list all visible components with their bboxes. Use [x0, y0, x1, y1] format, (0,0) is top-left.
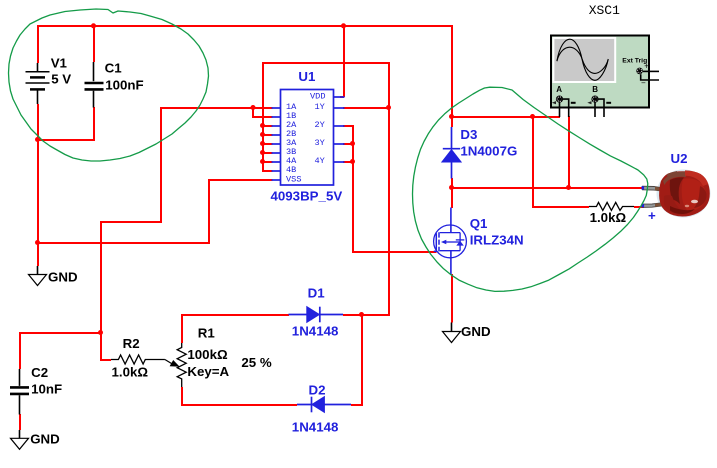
label C1 value — [105, 61, 144, 93]
wire 3A stub — [262, 143, 273, 145]
green annotation loop around D3/Q1 — [413, 87, 648, 291]
diode D3 — [442, 127, 461, 179]
MOSFET Q1 — [434, 208, 467, 275]
wire C2 top drop — [19, 332, 21, 369]
diode D2 — [297, 397, 351, 413]
scope lead A plus — [559, 103, 561, 118]
svg-text:1N4007G: 1N4007G — [460, 144, 517, 159]
wire scope A minus drop — [568, 116, 570, 188]
wire D3 branch vertical — [451, 25, 453, 127]
svg-text:D2: D2 — [309, 383, 326, 398]
wire staircase vertical upper — [160, 107, 162, 222]
wire LED cathode rail — [451, 187, 643, 189]
capacitor C2 — [10, 369, 29, 415]
svg-text:VSS: VSS — [286, 175, 301, 185]
wire 2B stub — [262, 134, 273, 136]
wire 3Y stub — [343, 143, 354, 145]
wire VSS rail horizontal — [37, 242, 210, 244]
svg-text:4B: 4B — [286, 165, 296, 175]
wire R1 riser — [181, 314, 183, 343]
svg-text:Key=A: Key=A — [187, 364, 229, 379]
svg-text:+: + — [648, 208, 656, 223]
svg-text:U1: U1 — [298, 69, 316, 84]
IC U1 left pin stubs — [272, 108, 281, 180]
svg-text:1Y: 1Y — [315, 102, 325, 112]
svg-text:GND: GND — [461, 324, 491, 339]
wire D1 to feedback corner — [343, 314, 390, 316]
svg-text:R1: R1 — [198, 326, 216, 341]
wire gate rail horizontal — [352, 251, 437, 253]
capacitor C1 — [85, 62, 104, 108]
wire resistor to LED anode — [634, 206, 644, 208]
label U1 part number — [271, 189, 343, 204]
ground GND1 under V1 — [29, 266, 47, 286]
label R1 percent — [241, 355, 271, 370]
wire C1 top drop — [93, 25, 95, 62]
wire V1 C1 bottom link — [37, 139, 95, 141]
label D1 — [292, 285, 339, 338]
svg-text:A: A — [556, 85, 562, 94]
wire resistor feed — [532, 206, 589, 208]
wire 3B stub — [262, 152, 273, 154]
scope ext trig leads — [641, 71, 659, 80]
label U2 — [671, 151, 688, 166]
wire D2 right stub — [351, 404, 363, 406]
ground GND2 under C2 — [11, 430, 29, 449]
svg-text:Q1: Q1 — [470, 216, 488, 231]
wire VSS riser — [208, 179, 210, 244]
ground GND3 under Q1 — [443, 323, 461, 343]
label XSC1 — [589, 3, 620, 18]
label R3 value — [590, 210, 627, 225]
svg-text:100kΩ: 100kΩ — [187, 347, 228, 362]
IC U1 pin labels — [286, 92, 325, 185]
wire node A to C2 — [19, 332, 102, 334]
LED U2 photo — [642, 170, 711, 218]
svg-text:B: B — [592, 85, 598, 94]
IC U1 body — [281, 90, 334, 186]
svg-text:5 V: 5 V — [51, 71, 71, 86]
wire R1 to D1 — [181, 314, 289, 316]
svg-text:1.0kΩ: 1.0kΩ — [590, 210, 627, 225]
IC U1 right pin stubs — [334, 97, 345, 162]
label R1 value — [187, 326, 229, 379]
potentiometer R1 — [165, 343, 186, 387]
label U1 — [298, 69, 316, 84]
wire top rail — [37, 25, 452, 27]
svg-text:2Y: 2Y — [315, 120, 325, 130]
svg-text:4Y: 4Y — [315, 156, 325, 166]
wire input bus vertical — [262, 62, 264, 171]
wire branch down to resistor — [532, 116, 534, 207]
svg-text:VDD: VDD — [310, 92, 325, 102]
wire 1A input — [160, 107, 273, 109]
svg-text:GND: GND — [48, 269, 78, 284]
label LED plus — [648, 208, 656, 223]
svg-text:C2: C2 — [31, 365, 48, 380]
wire staircase horizontal — [100, 221, 162, 223]
wire Q1 source to GND red — [451, 274, 453, 323]
label D2 — [292, 383, 339, 435]
green annotation loop around V1/C1 — [9, 9, 209, 161]
wire R2 feed — [100, 359, 111, 361]
label D3 — [460, 127, 517, 158]
wire staircase vertical lower — [100, 221, 102, 333]
wire D2 to R1 bottom — [181, 404, 297, 406]
wire D3 to scope A rail — [451, 116, 560, 118]
wire D1 node down — [361, 314, 363, 405]
wire V1 top riser — [37, 25, 39, 63]
svg-text:U2: U2 — [671, 151, 688, 166]
wire 1B jog — [252, 107, 254, 117]
wire 2A stub — [262, 125, 273, 127]
svg-text:25 %: 25 % — [241, 355, 271, 370]
label GND2 — [30, 432, 60, 447]
svg-text:1N4148: 1N4148 — [292, 323, 339, 338]
scope lead B minus — [595, 99, 604, 117]
wire 4A stub — [262, 161, 273, 163]
label GND1 — [48, 269, 78, 284]
wire node A to R2 — [100, 332, 102, 360]
label V1 value — [51, 56, 72, 87]
wire C2 bottom red — [19, 414, 21, 430]
svg-text:3Y: 3Y — [315, 138, 325, 148]
wire C1 bottom red — [93, 107, 95, 141]
wire VDD stub red — [340, 96, 344, 98]
label Q1 — [470, 216, 524, 248]
wire VSS row — [208, 179, 273, 181]
svg-text:+: + — [644, 61, 649, 70]
svg-text:D3: D3 — [460, 127, 477, 142]
wire 1B stub — [252, 116, 273, 118]
svg-text:10nF: 10nF — [31, 381, 62, 396]
svg-text:1.0kΩ: 1.0kΩ — [112, 365, 149, 380]
wire V1 bottom to GND — [37, 104, 39, 266]
scope lead A minus — [560, 99, 569, 117]
svg-text:XSC1: XSC1 — [589, 3, 620, 18]
svg-text:IRLZ34N: IRLZ34N — [470, 233, 524, 248]
svg-text:C1: C1 — [105, 61, 123, 76]
diode D1 — [289, 307, 344, 323]
wire gate rail vertical — [352, 125, 354, 252]
label C2 value — [31, 365, 62, 396]
svg-text:R2: R2 — [123, 336, 140, 351]
wire 4Y stub — [343, 161, 354, 163]
svg-text:D1: D1 — [308, 285, 326, 300]
label R2 value — [112, 336, 149, 380]
svg-text:1N4148: 1N4148 — [292, 419, 339, 434]
wire Q1 drain red — [451, 187, 453, 208]
wire 2Y stub — [343, 125, 354, 127]
resistor R2 — [111, 355, 165, 364]
svg-text:V1: V1 — [51, 56, 68, 71]
svg-text:GND: GND — [30, 432, 60, 447]
resistor R3 1.0k to LED — [589, 202, 634, 210]
wire feedback vertical — [388, 62, 390, 315]
battery V1 — [26, 63, 50, 104]
svg-text:100nF: 100nF — [105, 78, 143, 93]
wire 4B jog — [262, 170, 273, 172]
svg-text:4093BP_5V: 4093BP_5V — [271, 189, 343, 204]
scope lead B plus — [594, 103, 596, 118]
wire D3 bottom red — [451, 178, 453, 189]
wire VDD riser — [343, 25, 345, 97]
wire feedback top horizontal — [262, 62, 390, 64]
wire R1 bottom riser — [181, 387, 183, 406]
oscilloscope XSC1 — [551, 36, 649, 108]
wire 1Y to feedback node — [343, 107, 389, 109]
label GND3 — [461, 324, 491, 339]
